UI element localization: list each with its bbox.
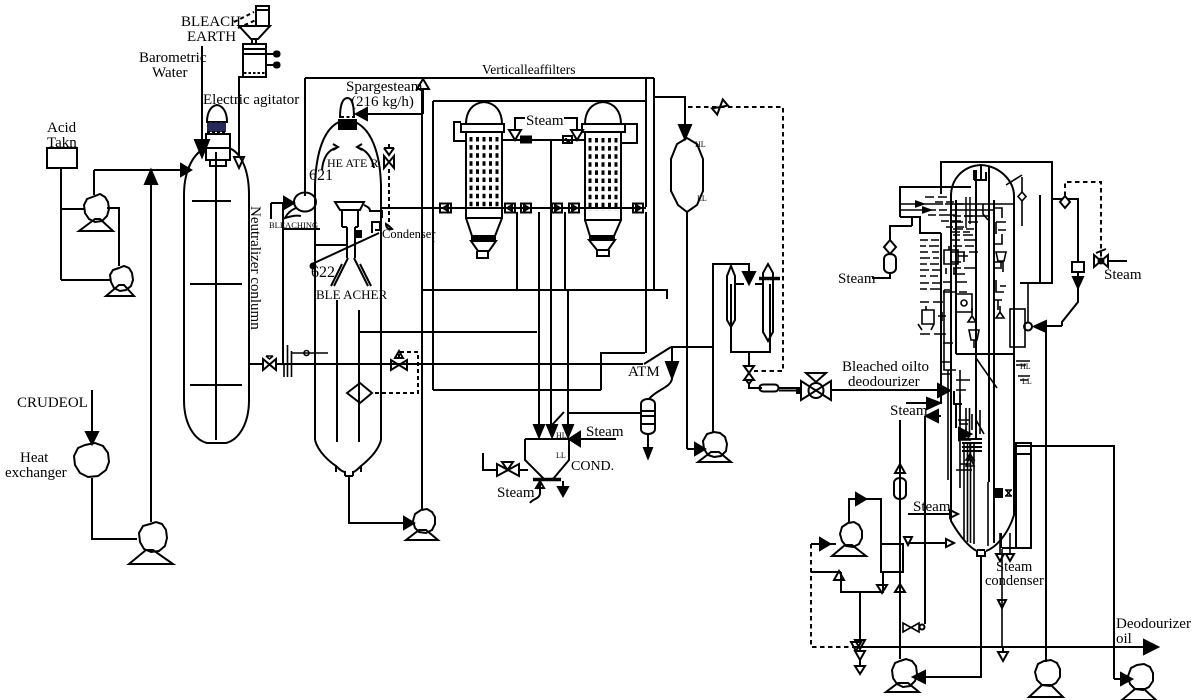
pump P6 bbox=[1035, 660, 1060, 686]
COND drain valve left bbox=[483, 453, 497, 470]
line to ATM cylinder bbox=[568, 412, 641, 414]
collector y332 bbox=[360, 331, 537, 333]
internal tube bundle bbox=[964, 442, 974, 544]
collector y290 bbox=[422, 290, 667, 299]
triangle down small bbox=[904, 537, 912, 545]
wire capsule to control valve bbox=[779, 388, 800, 391]
arrow down into polish filter box bbox=[743, 272, 755, 284]
small diamond on line bbox=[1060, 196, 1070, 208]
svg-text:deodourizer: deodourizer bbox=[848, 374, 920, 390]
bleaching pump bbox=[294, 193, 316, 212]
hopper neck bbox=[252, 39, 256, 44]
svg-text:Condenser: Condenser bbox=[382, 227, 436, 241]
svg-text:LL: LL bbox=[697, 194, 707, 203]
filter F1 body bbox=[466, 132, 502, 218]
wire diamond up bbox=[890, 226, 912, 254]
upper right internals bbox=[983, 204, 1006, 244]
arrow into bleaching pump bbox=[284, 197, 294, 209]
filter F2 body bbox=[585, 132, 621, 220]
manifold line bbox=[380, 207, 646, 209]
small internals group 2 bbox=[918, 306, 946, 330]
feed hook bbox=[954, 391, 962, 428]
svg-text:ATM: ATM bbox=[628, 364, 660, 380]
arrow into neutralizer top (solid) bbox=[195, 140, 209, 157]
wire sparge/discharge vertical bbox=[421, 89, 423, 509]
svg-text:LL: LL bbox=[556, 451, 566, 460]
box bottom edge bbox=[841, 572, 883, 592]
pump P3 bbox=[139, 522, 167, 552]
triangle mid up bbox=[895, 584, 905, 592]
bleacher interior pipes bbox=[337, 300, 359, 442]
arrow into vacuum pump bbox=[687, 448, 695, 450]
arrows into COND bbox=[534, 425, 544, 437]
condenser valve bbox=[384, 156, 389, 168]
cartridge 2 top bar bbox=[759, 277, 780, 281]
steam valve left (open arrow down) bbox=[509, 130, 521, 140]
pump P1 bbox=[84, 194, 109, 222]
internal tray lines upper bbox=[951, 222, 978, 262]
condenser dashed line bbox=[388, 169, 390, 222]
wire pump P1 right bbox=[107, 208, 119, 266]
tiny nozzle marks bbox=[995, 489, 1002, 497]
sparger black box bbox=[339, 120, 356, 129]
steam arrow into COND bbox=[580, 438, 616, 440]
bleacher discharge riser bbox=[421, 290, 423, 510]
svg-text:Steam: Steam bbox=[838, 271, 876, 287]
riser x551 bbox=[550, 140, 552, 428]
wire P4 up and right bbox=[849, 499, 881, 544]
funnel legs bbox=[331, 258, 371, 286]
open triangle in bottom bbox=[966, 456, 974, 466]
filters box verticals bbox=[646, 78, 654, 290]
surge drum (capsule) bbox=[671, 138, 703, 212]
heat exchanger bbox=[74, 443, 109, 477]
funnel tube bbox=[347, 227, 355, 258]
acid tank bbox=[47, 148, 77, 168]
signal valve tilted bbox=[712, 99, 728, 114]
neutralizer tick 3 bbox=[190, 384, 242, 386]
filter F2 leaves bbox=[590, 138, 616, 211]
riser x539 bbox=[538, 212, 540, 428]
riser x565 bbox=[564, 212, 566, 290]
column section break bbox=[956, 353, 1013, 355]
svg-text:Water: Water bbox=[152, 65, 187, 81]
left diamond bbox=[884, 240, 896, 254]
left utility line bbox=[899, 420, 901, 659]
wire into P4 bbox=[811, 543, 836, 545]
wire into economizer bbox=[911, 218, 913, 226]
svg-text:EARTH: EARTH bbox=[187, 29, 236, 45]
mid right internals bbox=[994, 262, 1006, 310]
control valve CV1 bbox=[801, 381, 816, 400]
wire to control valve bbox=[749, 382, 762, 388]
arrow on P4 line bbox=[856, 493, 866, 505]
neutralizer vessel bbox=[184, 148, 249, 443]
steam bracket left bbox=[515, 118, 525, 130]
deodourizer bottom nub bbox=[977, 550, 985, 556]
lower internals bbox=[956, 380, 984, 464]
agitator body bbox=[206, 134, 230, 160]
vacuum subsystem pump P4 bbox=[840, 522, 862, 547]
wire pump P3 up to feed line bbox=[150, 172, 152, 522]
svg-text:Heat: Heat bbox=[20, 450, 49, 466]
manifold valve box 4 bbox=[552, 204, 562, 213]
manifold valve box 3 bbox=[521, 204, 531, 213]
wire feed line to neutralizer bbox=[94, 169, 181, 171]
feeder nozzle 2 bbox=[266, 64, 274, 66]
condenser circle bbox=[386, 224, 392, 229]
triangle down at box bottom bbox=[877, 585, 887, 593]
dome right diagonal bbox=[1006, 175, 1022, 185]
622 pointer diagonal bbox=[312, 233, 379, 264]
COND body bbox=[525, 439, 569, 479]
wire heat exchanger to pump P3 bbox=[92, 478, 137, 539]
steam valve right bbox=[571, 130, 583, 140]
svg-text:Neutralizer conlumn: Neutralizer conlumn bbox=[247, 206, 263, 330]
filter F2 plate bbox=[582, 124, 625, 132]
svg-text:Acid: Acid bbox=[47, 120, 77, 136]
feeder drum bbox=[243, 44, 266, 77]
internal line x989 bbox=[988, 167, 990, 482]
svg-text:CRUDEOL: CRUDEOL bbox=[17, 395, 88, 411]
polish filter box bbox=[731, 284, 770, 352]
inner circle hx bbox=[961, 300, 967, 306]
collector y390 bbox=[433, 389, 601, 391]
riser x568 bbox=[567, 290, 569, 428]
second steam line bbox=[908, 542, 946, 544]
filter F1 dome bbox=[466, 102, 502, 124]
steam valve right bbox=[1094, 255, 1101, 267]
inner frame lower bbox=[944, 290, 956, 370]
COND bottom bar bbox=[533, 478, 561, 482]
filter F2 dome bbox=[585, 102, 621, 124]
nozzle circle bbox=[1024, 323, 1032, 331]
svg-text:Spargesteam: Spargesteam bbox=[346, 79, 423, 95]
wire right main down to pump P6 bbox=[1045, 326, 1047, 662]
wire feeder to neutralizer bbox=[239, 77, 243, 157]
riser x517 bbox=[516, 212, 518, 290]
dashed control loop around valve bbox=[371, 352, 418, 393]
dashed pointer bbox=[234, 12, 254, 22]
internal line x976 bbox=[975, 170, 977, 440]
wire y264 to polish filters bbox=[713, 264, 749, 272]
bleacher cap bbox=[340, 98, 354, 118]
filter F2 inlet bracket bbox=[621, 124, 637, 143]
open arrow up (sparge) bbox=[417, 79, 429, 89]
filters inner box top bbox=[433, 100, 646, 102]
svg-text:oil: oil bbox=[1116, 631, 1132, 647]
feed line to funnel bbox=[315, 244, 347, 246]
arrow left into riser bbox=[938, 415, 941, 417]
wire angled into COND bbox=[552, 412, 564, 425]
outer box bbox=[941, 162, 1052, 283]
open arrow into neutralizer bbox=[234, 157, 244, 168]
dashed signal from drum top bbox=[688, 107, 783, 371]
arrow into pump P5 bbox=[913, 671, 925, 683]
arrow into neutralizer bbox=[181, 164, 191, 176]
arrow into surge drum bbox=[679, 125, 691, 139]
arrow down to heat exchanger bbox=[86, 432, 98, 444]
inner pipe with diamond bbox=[1021, 177, 1023, 226]
right side piping in box bbox=[1039, 195, 1041, 283]
filters box left edge bbox=[432, 101, 434, 390]
filter F2 outlet bbox=[597, 250, 609, 256]
wire P4 dashed connection triangles bbox=[851, 642, 861, 651]
svg-text:(216 kg/h): (216 kg/h) bbox=[351, 94, 414, 110]
condenser drips bbox=[1000, 533, 1010, 554]
svg-text:Steam: Steam bbox=[913, 499, 951, 515]
neutralizer tick 2 bbox=[190, 283, 242, 285]
filter F1 inlet bracket bbox=[454, 122, 465, 141]
wire filters box to surge drum bbox=[654, 97, 685, 125]
manifold valve box 5 bbox=[569, 204, 579, 213]
agitator dome bbox=[207, 105, 227, 122]
lower internal triangles bbox=[956, 428, 974, 470]
wire pump riser to ATM line bbox=[712, 263, 714, 432]
small box right bbox=[881, 544, 903, 572]
filter inlet line bbox=[502, 139, 585, 141]
internal line x988 low bbox=[987, 482, 989, 546]
svg-text:exchanger: exchanger bbox=[5, 465, 67, 481]
long tray lines bbox=[951, 204, 1015, 216]
svg-text:Steam: Steam bbox=[526, 113, 564, 129]
svg-text:BLEACHING: BLEACHING bbox=[269, 220, 318, 230]
svg-text:Barometric: Barometric bbox=[139, 50, 207, 66]
diamond strainer bbox=[347, 383, 372, 403]
wire circle up bbox=[1027, 283, 1029, 322]
internal valve triangles bbox=[968, 306, 1004, 322]
wire to bleaching pump bbox=[271, 203, 320, 229]
diagonal support bbox=[976, 358, 997, 388]
bottom valve near P5 bbox=[903, 623, 919, 632]
arrow into column at y434 bbox=[959, 428, 971, 440]
hopper top bbox=[256, 6, 269, 26]
inner verticals lower bbox=[948, 370, 960, 488]
bleacher bottom taper bbox=[315, 440, 381, 472]
svg-text:HL: HL bbox=[1020, 362, 1031, 371]
arrow feed into deodourizer bbox=[938, 384, 950, 397]
valve at neutralizer bottom bbox=[263, 359, 270, 370]
feeder nozzle 1 bbox=[266, 53, 274, 55]
ATM vent arrow bbox=[647, 434, 649, 448]
steam condenser drum bbox=[1001, 443, 1031, 549]
sparge steam riser bbox=[367, 89, 423, 114]
small internals group 1 bbox=[944, 246, 968, 274]
filter F1 outlet bbox=[477, 251, 488, 258]
arrow up at feed line bbox=[145, 170, 157, 184]
deodourizer shell left bbox=[951, 194, 977, 551]
vapor line to condenser bbox=[364, 205, 382, 233]
steam bracket right bbox=[564, 118, 577, 130]
manifold valve box 6 bbox=[633, 204, 643, 213]
pump P2 bbox=[110, 266, 133, 291]
svg-text:Bleached oilto: Bleached oilto bbox=[842, 359, 929, 375]
valve on y365 line bbox=[391, 360, 399, 370]
triangle up on y572 bbox=[834, 571, 844, 580]
svg-text:BLE ACHER: BLE ACHER bbox=[316, 287, 387, 302]
dome internals bbox=[974, 166, 986, 180]
wire x646 down to ATM bbox=[645, 212, 647, 353]
black block on inlet line bbox=[521, 137, 531, 143]
internal funnel cup bbox=[335, 202, 364, 210]
pump P5 bbox=[892, 659, 917, 687]
svg-text:Steam: Steam bbox=[497, 485, 535, 501]
wire pump P1 up bbox=[93, 170, 95, 195]
svg-text:LL: LL bbox=[1022, 377, 1032, 386]
neutralizer bottom valve wire bbox=[248, 363, 283, 365]
svg-text:622: 622 bbox=[311, 264, 335, 281]
wire bleacher bottom to pump bbox=[349, 476, 404, 523]
filter F2 black band bbox=[590, 236, 614, 240]
svg-text:Steam: Steam bbox=[586, 424, 624, 440]
filter F1 plate bbox=[461, 124, 504, 132]
vacuum pump bbox=[703, 432, 727, 457]
bleacher box top line bbox=[305, 77, 654, 79]
polish filter cartridge 1 bbox=[727, 266, 735, 327]
pump P7 bbox=[1128, 664, 1153, 690]
heater arcs bbox=[322, 148, 374, 170]
hopper funnel bbox=[239, 26, 270, 39]
manifold valve box 2 bbox=[505, 204, 515, 213]
bleacher vessel outline bbox=[315, 122, 381, 440]
black square on tube bbox=[355, 231, 361, 237]
wire branch to pump P1 bbox=[61, 208, 84, 210]
instrument stubs near neutralizer valve bbox=[284, 345, 328, 377]
svg-text:621: 621 bbox=[309, 167, 333, 184]
filter F2 taper bbox=[585, 220, 621, 236]
svg-text:COND.: COND. bbox=[571, 459, 614, 474]
bleacher box left edge bbox=[304, 78, 306, 196]
arrow into bleacher pump bbox=[404, 517, 414, 529]
step x601 bbox=[601, 353, 645, 390]
line y572 bbox=[811, 571, 841, 573]
wire crude oil down bbox=[91, 390, 93, 432]
vertical x860 down with check valves bbox=[859, 592, 861, 640]
svg-text:HE ATE R: HE ATE R bbox=[327, 156, 378, 170]
small box on inlet line bbox=[563, 136, 572, 143]
deodourizer shell right bbox=[986, 196, 1014, 551]
ATM arrow down bbox=[666, 362, 678, 378]
arrow at right end bbox=[1144, 640, 1158, 654]
internal cups bbox=[969, 252, 1006, 348]
wire top of condenser drum bbox=[1016, 446, 1114, 679]
svg-text:HL: HL bbox=[556, 431, 567, 440]
column bottom tray stack bbox=[962, 439, 982, 451]
economizer tray 1 bbox=[900, 203, 963, 205]
deodourizer dome bbox=[951, 165, 1014, 196]
steam arrow right bbox=[906, 402, 927, 404]
internal squiggles mid bbox=[920, 282, 967, 343]
wire from box right bbox=[1052, 199, 1078, 262]
dashed drain bbox=[811, 544, 856, 647]
wire polish box outlet bbox=[748, 352, 750, 365]
neutralizer tick 1 bbox=[192, 200, 231, 202]
arrow left into column nozzle bbox=[1046, 325, 1062, 327]
wire up from valve bbox=[282, 203, 284, 364]
internal line x956 bbox=[955, 200, 957, 354]
wire small box down bbox=[1062, 272, 1078, 326]
wire acid tank down bbox=[60, 168, 62, 280]
wire acid to pump P2 bbox=[61, 279, 110, 281]
polish filter cartridge 2 bbox=[763, 264, 773, 341]
svg-text:BLEACH: BLEACH bbox=[181, 14, 241, 30]
wire control valve to deodourizer bbox=[831, 389, 938, 391]
internal line x996 bbox=[993, 200, 995, 543]
economizer tray 2 bbox=[900, 209, 947, 211]
funnel neck bbox=[342, 210, 358, 227]
manifold valve box 1 bbox=[440, 204, 451, 213]
steam riser right of P5 bbox=[924, 416, 926, 624]
left capsule bbox=[884, 254, 896, 273]
svg-text:Steam: Steam bbox=[890, 403, 928, 419]
dashed loop right bbox=[1065, 182, 1101, 261]
wire barometric water down bbox=[201, 46, 203, 140]
inline capsule bbox=[760, 385, 779, 392]
bleacher pump bbox=[413, 509, 435, 533]
wire x941 feed channel bbox=[940, 233, 942, 404]
svg-text:Verticalleaffilters: Verticalleaffilters bbox=[482, 62, 575, 77]
drum drain to header bbox=[1001, 549, 1003, 648]
svg-text:Deodourizer: Deodourizer bbox=[1116, 616, 1191, 632]
ATM line to pump riser bbox=[671, 346, 713, 348]
economizer block bbox=[900, 187, 971, 233]
tube pair above trays bbox=[966, 408, 970, 437]
steam squiggle bbox=[530, 483, 540, 503]
svg-text:HL: HL bbox=[695, 140, 706, 149]
wire column nub down bbox=[925, 557, 981, 677]
ATM vent cylinder bbox=[641, 399, 655, 434]
shell ticks bbox=[942, 362, 950, 374]
capsule on line bbox=[894, 478, 906, 499]
drain valve (vertical bowtie) bbox=[744, 366, 754, 373]
neutralizer center line bbox=[215, 152, 217, 440]
small open triangle vent bbox=[998, 652, 1008, 661]
filter F1 funnel bbox=[471, 241, 496, 251]
panel box right bbox=[1010, 309, 1025, 347]
small box bbox=[1072, 262, 1084, 272]
collector y365 bbox=[283, 363, 643, 365]
filter F1 leaves bbox=[471, 137, 497, 209]
filter F2 funnel bbox=[589, 240, 615, 250]
filter F1 black band bbox=[472, 237, 495, 241]
economizer dashes bbox=[925, 197, 970, 232]
wire surge drum bottom down to pump bbox=[686, 212, 688, 449]
COND spout arrow bbox=[562, 481, 564, 487]
internal tray dashes dense bbox=[920, 216, 975, 289]
svg-text:Steam: Steam bbox=[1104, 267, 1142, 283]
wire steam left bbox=[872, 273, 890, 278]
main bottom header bbox=[856, 646, 1144, 648]
arrow into bleacher cap bbox=[356, 108, 367, 120]
arrow into P7 bbox=[1114, 678, 1121, 680]
triangle top bbox=[895, 464, 905, 473]
agitator navy band bbox=[207, 122, 226, 132]
svg-text:condenser: condenser bbox=[985, 573, 1044, 589]
steam line into column bbox=[908, 513, 950, 515]
filter F1 taper bbox=[466, 218, 502, 236]
ATM flap diagonal bbox=[644, 347, 671, 364]
